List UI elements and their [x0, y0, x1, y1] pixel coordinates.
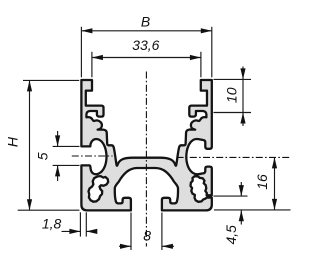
aluminium extrusion profile cross-section (grey body with cavities) [81, 80, 211, 210]
svg-text:5: 5 [34, 152, 50, 160]
4,5 arrows [239, 185, 244, 196]
svg-text:B: B [141, 13, 150, 29]
svg-text:H: H [5, 136, 21, 147]
svg-text:8: 8 [143, 228, 151, 244]
1,8 dimension line [62, 230, 81, 232]
svg-text:4,5: 4,5 [223, 225, 239, 245]
33,6 arrows [92, 55, 103, 60]
svg-text:10: 10 [223, 87, 239, 103]
8 dimension line [119, 245, 131, 247]
16 arrows [272, 157, 277, 168]
H arrows [27, 80, 32, 91]
5 arrows [55, 135, 60, 146]
centerline left slot [72, 155, 113, 157]
8 extension lines [130, 213, 132, 251]
centerline vertical [72, 72, 291, 247]
B extension lines [80, 27, 82, 78]
10 dimension line [242, 67, 244, 127]
4,5 dimension line [240, 182, 242, 196]
16 bottom extension line [214, 209, 291, 211]
5 dimension line with outside arrows [57, 131, 59, 146]
svg-text:1,8: 1,8 [42, 215, 62, 231]
B dimension line [81, 30, 211, 32]
1,8 arrows [69, 229, 80, 234]
33,6 dimension line [92, 57, 201, 59]
8 arrows [120, 244, 131, 249]
svg-text:16: 16 [254, 174, 270, 190]
dimension labels [5, 13, 271, 244]
B arrows [81, 28, 92, 33]
arrowheads [27, 28, 277, 249]
svg-text:33,6: 33,6 [132, 37, 159, 53]
H extension lines [23, 79, 79, 81]
5 extension lines [53, 145, 80, 147]
H dimension line [29, 80, 31, 210]
33,6 extension lines [91, 52, 93, 78]
16 dimension line [274, 157, 276, 210]
10 extension lines [214, 78, 252, 80]
centerline right slot [177, 156, 291, 158]
4,5 top extension line [214, 195, 248, 197]
10 arrows [240, 68, 245, 79]
dimension lines [18, 27, 291, 250]
1,8 extension lines [79, 212, 81, 236]
